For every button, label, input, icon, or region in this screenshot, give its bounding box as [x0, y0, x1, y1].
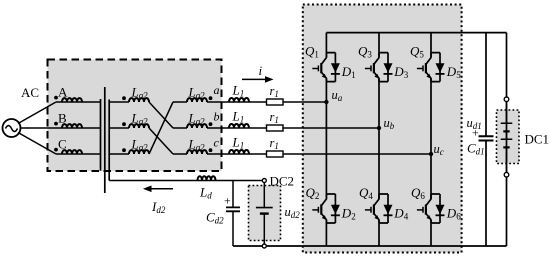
svg-text:r1: r1 — [270, 110, 279, 125]
svg-text:Cd1: Cd1 — [467, 141, 485, 157]
svg-text:A: A — [58, 85, 68, 100]
svg-text:+: + — [472, 126, 479, 140]
svg-text:b: b — [214, 110, 220, 124]
svg-text:i: i — [259, 63, 263, 78]
svg-text:C: C — [58, 137, 67, 152]
svg-text:a: a — [214, 83, 220, 97]
svg-text:L1: L1 — [232, 135, 245, 151]
svg-text:r1: r1 — [270, 84, 279, 99]
svg-text:Id2: Id2 — [151, 199, 166, 215]
svg-text:ud2: ud2 — [285, 205, 301, 220]
svg-text:+: + — [224, 194, 231, 208]
svg-text:L1: L1 — [232, 109, 245, 125]
svg-text:r1: r1 — [270, 136, 279, 151]
svg-text:DC1: DC1 — [525, 132, 550, 147]
svg-text:c: c — [214, 136, 220, 150]
svg-text:L1: L1 — [232, 83, 245, 99]
svg-text:DC2: DC2 — [270, 174, 295, 189]
svg-text:AC: AC — [21, 85, 39, 100]
svg-text:Ld: Ld — [199, 185, 212, 201]
svg-text:B: B — [58, 111, 67, 126]
svg-text:Cd2: Cd2 — [206, 210, 224, 226]
